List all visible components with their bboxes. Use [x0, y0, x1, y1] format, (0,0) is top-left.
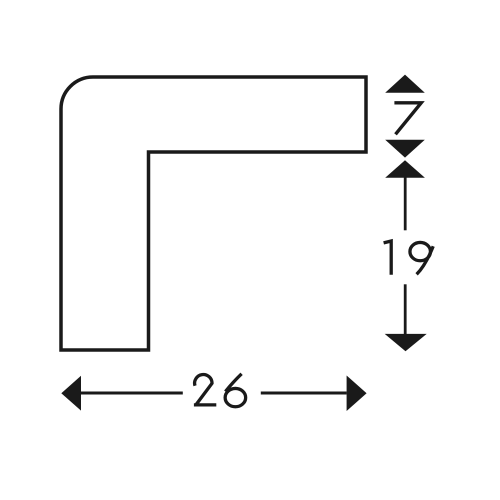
dim 26 label digit 6: [225, 374, 246, 407]
dim 19 leader line lower: [404, 284, 407, 334]
dim 19 leader line upper: [404, 178, 407, 231]
dim 26 leader line right: [261, 392, 347, 395]
dim 19 label digit 1: [384, 241, 392, 275]
dim 26 label digit 2: [194, 374, 216, 404]
dim 7 label "7": [394, 103, 421, 135]
dim 19 arrowhead up: [385, 160, 425, 178]
dim 7 arrowhead down: [385, 140, 425, 158]
dim 26 leader line left: [80, 392, 183, 395]
L-profile outline: [61, 77, 366, 350]
dim 19 arrowhead down: [385, 334, 427, 351]
dim 19 label digit 9: [410, 242, 433, 274]
dim 26 arrowhead right: [347, 376, 367, 412]
dim 7 arrowhead up: [385, 75, 425, 93]
dim 26 arrowhead left: [61, 376, 81, 411]
